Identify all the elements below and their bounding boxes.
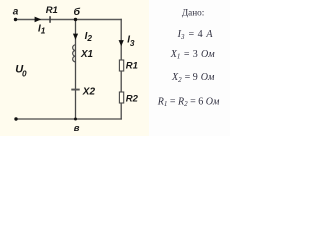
svg-text:R1: R1 <box>46 5 58 16</box>
resistor R1 body (right branch) <box>119 60 123 71</box>
svg-text:X1: X1 <box>80 49 93 60</box>
svg-text:Дано:: Дано: <box>182 8 204 18</box>
wire middle vertical (б to в) <box>75 20 77 120</box>
current arrow I1 <box>35 17 42 23</box>
svg-text:X2 = 9 Ом: X2 = 9 Ом <box>171 72 215 84</box>
inductor X1 coil <box>73 45 76 62</box>
wire bottom <box>16 118 122 120</box>
resistor R2 body <box>119 92 123 103</box>
wire right vertical <box>120 19 122 120</box>
bottom-left terminal dot <box>14 117 17 120</box>
resistor R1 tick on top wire <box>49 16 51 23</box>
svg-text:R1: R1 <box>126 60 138 71</box>
svg-text:I1: I1 <box>38 24 46 36</box>
svg-text:I2: I2 <box>85 31 93 43</box>
svg-text:в: в <box>74 123 80 134</box>
reactance X2 element tick <box>71 89 79 91</box>
node б junction dot <box>74 18 77 21</box>
svg-text:X1 = 3 Ом: X1 = 3 Ом <box>170 49 215 61</box>
schematic background <box>0 0 230 136</box>
given-data panel background <box>149 0 230 136</box>
svg-text:a: a <box>13 6 19 17</box>
current arrow I3 <box>119 40 124 46</box>
svg-text:X2: X2 <box>82 87 96 98</box>
svg-text:б: б <box>74 6 81 18</box>
node в junction dot <box>74 118 77 121</box>
node a terminal dot <box>14 18 17 21</box>
current arrow I2 <box>73 34 78 40</box>
wire top (a to top-right corner) <box>16 19 122 21</box>
svg-text:R2: R2 <box>126 93 139 104</box>
